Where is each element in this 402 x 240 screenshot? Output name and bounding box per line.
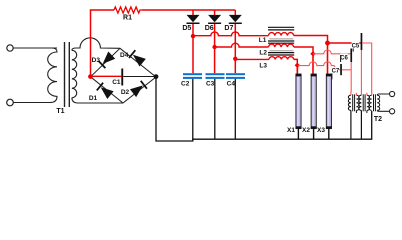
wire unit A bottom to bus (350, 110, 352, 139)
capacitor C6 second plate tick (340, 55, 342, 62)
capacitor C2 plates (183, 73, 202, 79)
node L1 corner junction dot (325, 41, 330, 46)
svg-text:C1: C1 (112, 79, 121, 86)
inductor L1 core bars (268, 27, 294, 39)
wire C4 bottom to bus (234, 79, 236, 139)
wire D5 node to L1 with hops (red) (193, 32, 269, 36)
svg-text:D6: D6 (205, 25, 214, 32)
node D7 junction dot (233, 57, 237, 61)
wire T1 secondary top to bridge top vertex with hop (72, 38, 120, 51)
wire L3 out to X1 drop (red) (294, 59, 298, 65)
svg-text:C4: C4 (227, 81, 236, 88)
component X3 tube (326, 74, 332, 129)
transformer T2 primary coil (369, 95, 372, 110)
wire D6 cathode down to C3 (red) (214, 24, 216, 73)
diode D3 (top-left arm) (98, 52, 115, 69)
svg-text:L1: L1 (259, 37, 267, 44)
diode D6 (208, 10, 221, 24)
svg-text:R1: R1 (123, 15, 132, 22)
wire X1 bottom to bus (297, 129, 299, 140)
wire X3 drop (red) (327, 43, 329, 75)
label C5 (352, 42, 360, 50)
svg-text:L2: L2 (259, 50, 267, 57)
transformer unit B primary coil (359, 95, 362, 110)
svg-text:T1: T1 (56, 108, 64, 115)
capacitor C1 plate (121, 69, 123, 86)
diode D7 (229, 10, 242, 24)
wire unit B secondary bottom stub (366, 110, 368, 113)
inductor L2 core bars (268, 41, 294, 51)
node D5 junction dot (191, 34, 195, 38)
wire J1 to T1 primary top (13, 47, 57, 49)
diode bridge outline (91, 48, 157, 103)
wire unit A secondary bottom stub (355, 110, 357, 113)
terminal J3 output top (390, 91, 395, 96)
ground bus wire (156, 77, 372, 141)
diode D4 (top-right arm) (128, 50, 146, 67)
svg-text:D3: D3 (92, 57, 101, 64)
svg-text:C7: C7 (332, 69, 340, 75)
svg-text:D2: D2 (121, 89, 130, 96)
component X1 tube (296, 65, 302, 128)
wire C1 to bridge right vertex (123, 76, 156, 78)
terminal J1 top-left input (7, 45, 13, 51)
inductor L3 core bars (268, 53, 294, 55)
capacitor C5 plate (361, 33, 363, 50)
terminal J4 output bottom (390, 109, 395, 114)
component X2 tube (311, 74, 317, 129)
wire X2 bottom to bus (313, 129, 315, 140)
wire unit A red stubs (351, 92, 357, 95)
svg-text:L3: L3 (259, 63, 267, 70)
wire T1 secondary bottom to bridge bottom vertex (72, 98, 123, 103)
svg-text:C3: C3 (206, 81, 215, 88)
wire left vertex up to R1 bus (red) (90, 10, 92, 77)
transformer unit A secondary coil (356, 95, 359, 110)
wire T2 secondary top to terminal (377, 94, 389, 95)
wire D5 cathode down to node (red) (192, 24, 194, 73)
wire X2 drop (red) (312, 54, 314, 75)
svg-text:X2: X2 (302, 127, 310, 134)
transformer unit A core (353, 94, 355, 111)
svg-text:T2: T2 (374, 116, 382, 123)
node left vertex junction dot (88, 74, 93, 79)
diode D1 (bottom-left arm) (96, 82, 114, 99)
transformer T1 core (65, 42, 70, 107)
transformer unit A primary coil (348, 95, 351, 110)
transformer unit B core (363, 94, 365, 111)
wire L2 branch to C6 with hop (thin red) (313, 50, 350, 54)
wire L1 out to corner (red) (294, 36, 328, 44)
wire D6 node to L2 with hop (red) (215, 43, 269, 47)
node L2 diamond junction (310, 51, 315, 56)
wire C6 bottom lead down (thin red) (350, 62, 352, 92)
svg-text:C2: C2 (181, 81, 190, 88)
inductor L1 coil (269, 33, 294, 36)
wire unit B bottom to bus (360, 110, 362, 139)
capacitor C5 second plate tick (352, 48, 354, 51)
svg-text:D1: D1 (89, 95, 98, 102)
svg-text:D7: D7 (224, 25, 233, 32)
capacitor C7 second plate tick (331, 73, 333, 79)
wire C3 bottom to bus (214, 79, 216, 139)
svg-text:C6: C6 (340, 55, 348, 61)
transformer T2 core (374, 94, 376, 111)
svg-text:X3: X3 (317, 127, 325, 134)
transformer T1 secondary winding (72, 50, 77, 98)
transformer T2 secondary coil (377, 95, 380, 110)
wire L2 out to X2 drop (red) (294, 47, 313, 54)
inductor L3 coil (269, 57, 294, 60)
wire J2 to T1 primary bottom (13, 102, 52, 104)
label C7 (332, 67, 340, 75)
capacitor C6 plate (350, 49, 352, 63)
capacitor C7 plate (340, 64, 342, 75)
wire D7 cathode down to C4 (red) (234, 24, 236, 73)
wire X1 drop (red) (296, 65, 298, 74)
wire L1 node to C5 (red) (328, 42, 362, 44)
capacitor C4 plates (226, 73, 245, 79)
wire X3 bottom to bus (328, 129, 330, 140)
node L3 diamond junction (295, 63, 300, 68)
wire C7 right to unit1 drop (thin red) (342, 69, 351, 71)
transformer unit B secondary coil (367, 95, 370, 110)
svg-text:X1: X1 (287, 127, 295, 134)
svg-text:D5: D5 (182, 25, 191, 32)
wire bus from R1 to D7 drop (red) (142, 9, 235, 11)
wire bus left segment to R1 (90, 9, 114, 11)
inductor L2 coil (269, 44, 294, 47)
node D6 junction dot (212, 45, 216, 49)
wire bridge left vertex to C1 (red) (91, 75, 122, 77)
wire C5 bottom lead down (thin red) (360, 50, 362, 92)
node right vertex junction dot (154, 74, 159, 79)
terminal J2 bottom-left input (7, 99, 14, 106)
wire unit B red stubs (361, 92, 367, 95)
transformer T1 primary winding (48, 48, 57, 103)
label C6 (340, 54, 348, 62)
wire C2 bottom to bus (192, 79, 194, 141)
resistor R1 (114, 7, 142, 13)
diode D2 (bottom-right arm) (130, 80, 148, 97)
diode D5 (187, 10, 200, 24)
wire L3 branch to C7 with hops (thin red) (297, 62, 340, 70)
capacitor C3 plates (206, 73, 225, 79)
wire D7 node to L3 (red) (235, 58, 269, 60)
wire T2 secondary bottom to terminal (377, 109, 389, 112)
wire C5 right to corner down to T2a (thin red) (362, 43, 371, 92)
svg-text:D4: D4 (120, 52, 129, 59)
wire T2 primary red stub (371, 92, 373, 95)
